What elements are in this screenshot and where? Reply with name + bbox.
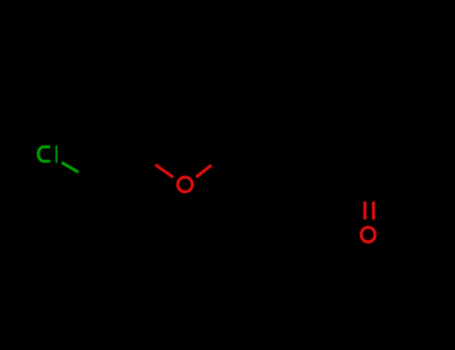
double bond C=O (oxygen half, red, left line): [363, 202, 366, 220]
atom label O (carbonyl oxygen): [361, 227, 375, 242]
bond Cl-C2 (chlorine half, green): [62, 163, 79, 173]
bond C1-O (oxygen half, red, left stub of ether O): [155, 165, 173, 178]
atom label Cl (chlorine), letter C: [38, 147, 50, 161]
atom label O (ether oxygen): [178, 177, 193, 192]
atom label Cl (chlorine), letter l: [56, 145, 58, 163]
bond O-C3 (oxygen half, red, right stub of ether O): [196, 165, 211, 177]
double bond C=O (oxygen half, red, right line): [372, 202, 375, 220]
